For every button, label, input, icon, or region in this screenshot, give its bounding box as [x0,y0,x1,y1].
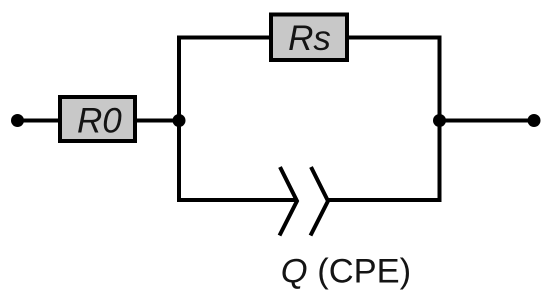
resistor R0 [60,97,135,141]
right vertical wire [438,36,442,203]
right terminal dot [528,114,541,127]
wire R0 to node A [135,119,181,123]
wire node B to right terminal [440,119,535,123]
top wire to Rs [177,36,271,40]
top wire Rs to right vertical [347,36,442,40]
capacitor-like CPE element Q [280,167,329,236]
node A junction dot [173,114,186,127]
node B junction dot [433,114,446,127]
resistor Rs [271,15,347,61]
left terminal dot [11,114,24,127]
svg-text:Q (CPE): Q (CPE) [281,253,411,291]
wire left terminal to R0 [18,119,61,123]
svg-text:R0: R0 [77,102,122,141]
svg-text:Rs: Rs [288,19,331,58]
bottom wire node A to CPE [177,198,297,202]
bottom wire CPE to right vertical [328,198,442,202]
left vertical wire [177,36,181,203]
